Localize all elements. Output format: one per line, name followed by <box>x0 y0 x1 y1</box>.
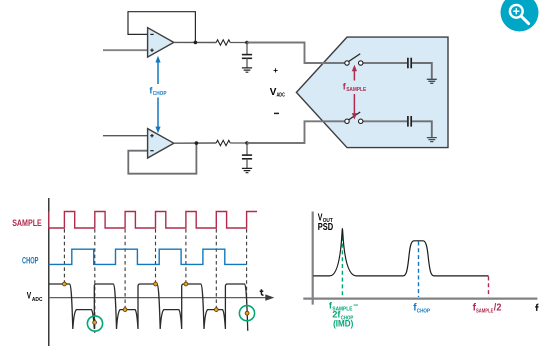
svg-text:(IMD): (IMD) <box>333 319 353 329</box>
SAMPLE waveform <box>49 212 257 229</box>
wire U2 +input stub <box>103 135 148 137</box>
svg-text:+: + <box>273 66 278 75</box>
svg-text:PSD: PSD <box>318 222 333 233</box>
PSD x-axis <box>303 298 537 300</box>
blue dashed marker <box>418 242 420 298</box>
op-amp U2 <box>148 129 174 158</box>
label t <box>260 289 264 295</box>
wire U1 output <box>174 41 216 43</box>
capacitor C1 <box>246 43 248 55</box>
timing y-axis <box>48 198 50 346</box>
sampling instant dots <box>63 282 67 286</box>
switch S2 (bottom) <box>345 119 349 123</box>
wire U1 +input stub <box>103 49 148 51</box>
switch S1 (top) <box>345 61 349 65</box>
svg-text:CHOP: CHOP <box>22 256 38 266</box>
timing diagram sampling instant dashed lines <box>63 229 65 283</box>
zoom icon <box>501 0 539 32</box>
wire U2 output <box>174 142 216 144</box>
highlight circle 2 <box>239 306 254 321</box>
op-amp U1 <box>148 28 174 57</box>
wire ADC bottom internal <box>363 120 407 122</box>
svg-text:ADC: ADC <box>32 297 43 303</box>
op-amp U2 feedback wire <box>128 143 196 174</box>
node RC top <box>245 41 249 45</box>
red dashed marker <box>488 277 490 298</box>
svg-text:SAMPLE: SAMPLE <box>346 87 366 93</box>
PSD y-axis <box>312 212 314 305</box>
op-amp U1 feedback wire <box>128 12 195 43</box>
wire C4 to ground <box>412 121 432 137</box>
svg-text:SAMPLE: SAMPLE <box>476 308 493 314</box>
svg-text:/2: /2 <box>494 303 502 314</box>
ground C1 <box>242 68 252 72</box>
capacitor C4 (bottom sampling cap) <box>407 116 409 127</box>
ground bottom (in ADC) <box>427 138 437 142</box>
ADC sampling block (pentagon) <box>296 37 448 148</box>
svg-text:CHOP: CHOP <box>153 91 167 97</box>
t axis <box>49 297 266 299</box>
PSD curve <box>313 228 488 276</box>
node U1 output junction <box>194 41 198 45</box>
wire C3 to ground <box>412 63 432 79</box>
wire ADC top internal <box>363 62 407 64</box>
label VADC - <box>274 112 279 114</box>
arrow f_SAMPLE <box>352 65 357 120</box>
wire R2 to node <box>230 142 247 144</box>
resistor R2 <box>216 140 230 145</box>
svg-text:–: – <box>353 299 358 309</box>
node U2 output junction <box>195 141 199 145</box>
green dashed marker <box>341 230 343 297</box>
label f axis <box>535 304 538 311</box>
svg-text:CHOP: CHOP <box>417 308 430 314</box>
ground C2 <box>242 168 252 172</box>
svg-text:SAMPLE: SAMPLE <box>12 218 42 228</box>
CHOP waveform <box>49 249 247 264</box>
wire node to ADC - input <box>247 121 345 143</box>
ground top (in ADC) <box>427 79 437 83</box>
capacitor C3 (top sampling cap) <box>407 58 409 69</box>
svg-text:ADC: ADC <box>277 93 285 99</box>
node RC bottom <box>245 141 249 145</box>
highlight circle 1 <box>87 316 102 331</box>
wire R1 to node <box>230 42 247 44</box>
wire node to ADC + input <box>247 43 345 64</box>
resistor R1 <box>216 40 230 45</box>
VADC waveform <box>49 284 248 331</box>
arrow f_CHOP <box>155 56 160 134</box>
capacitor C2 <box>246 143 248 155</box>
